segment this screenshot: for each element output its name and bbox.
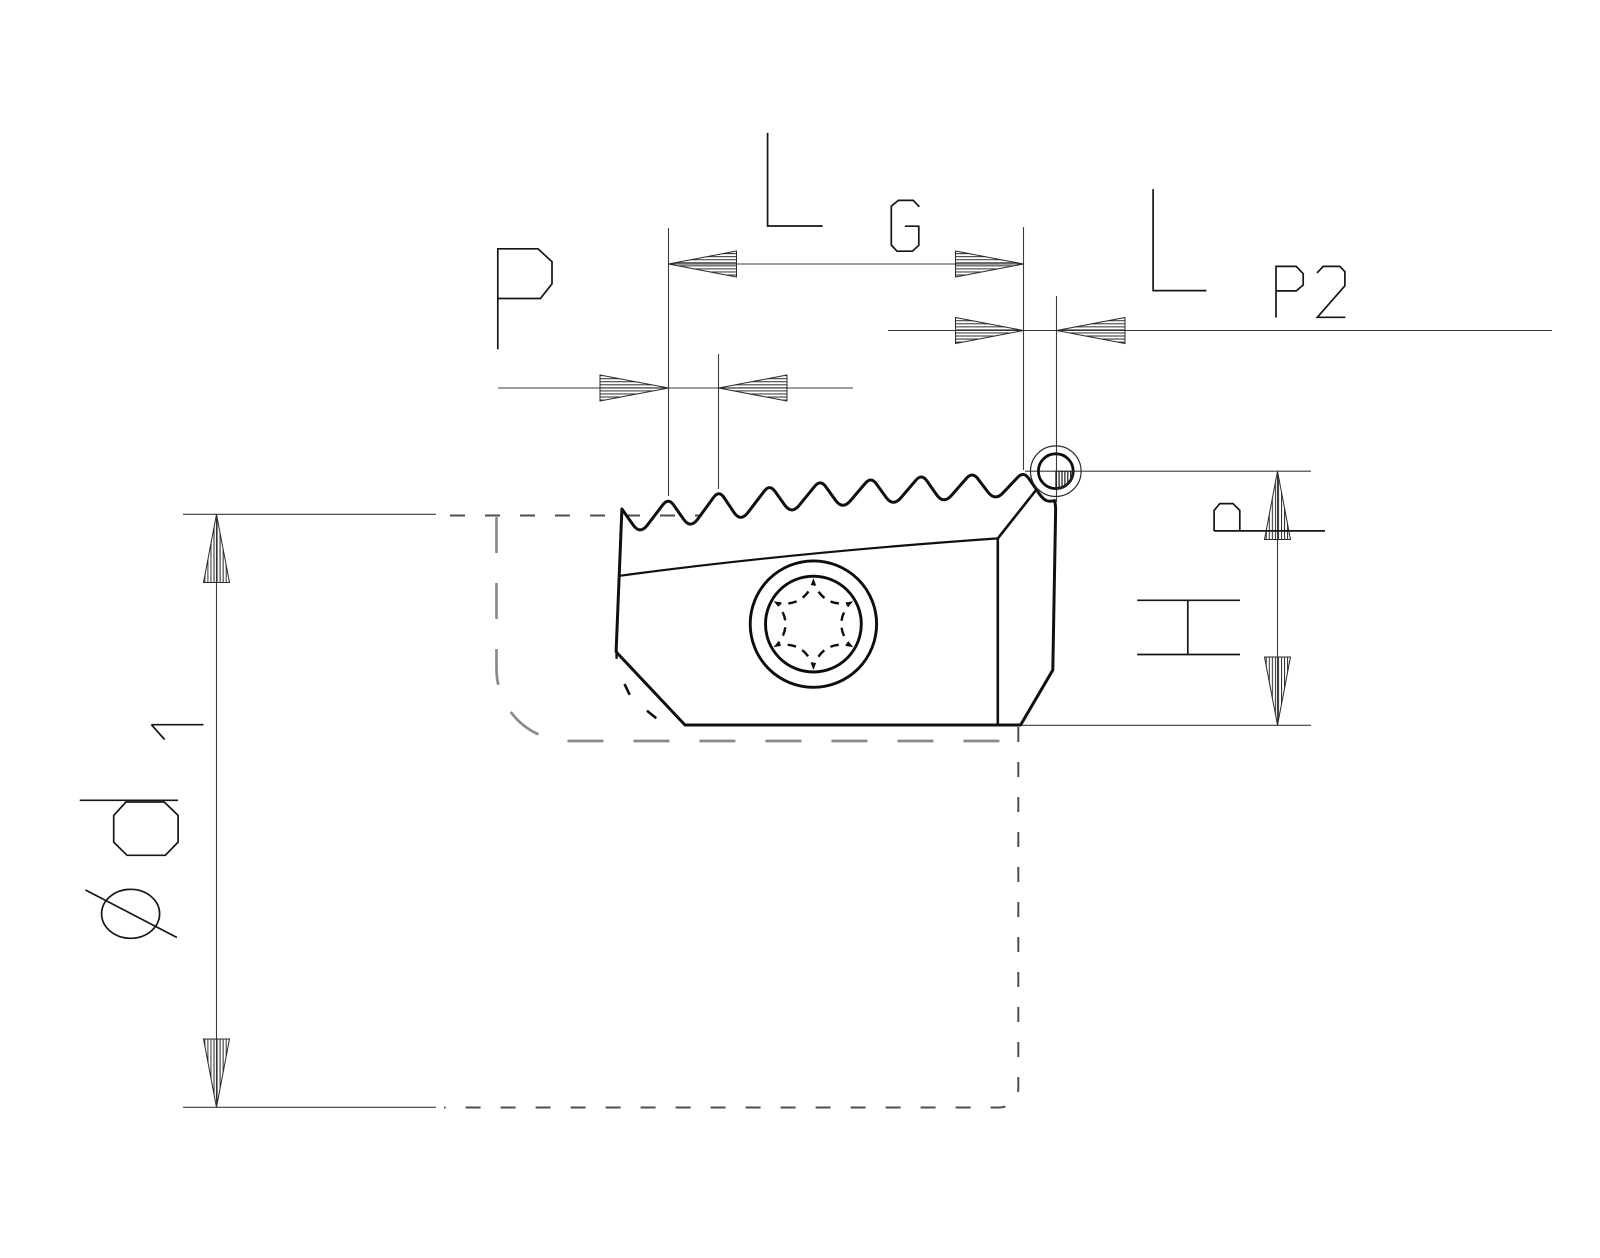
dimension P2 left arrow bbox=[956, 318, 1024, 344]
dimension od1 arrow up bbox=[204, 514, 230, 582]
dimension H arrow up bbox=[1265, 471, 1291, 539]
dimension H bottom extension line bbox=[1018, 724, 1311, 726]
dimension H top extension line bbox=[1025, 470, 1311, 472]
torx star dashed bbox=[777, 582, 851, 667]
dimension H line bbox=[1277, 471, 1279, 725]
tip radius outer circle bbox=[1031, 446, 1082, 497]
label subscript G bbox=[891, 200, 919, 251]
dimension P line bbox=[498, 387, 853, 389]
dimension H arrow down bbox=[1265, 657, 1291, 725]
screw hole inner circle bbox=[766, 576, 862, 672]
dimension od1 bottom extension line bbox=[183, 1106, 436, 1108]
ghost body outline long-dash (left vertical + corner + mid horizontal) bbox=[497, 517, 1019, 741]
ghost body outline short-dash top segment bbox=[450, 515, 702, 517]
insert left edge overshoot tick bbox=[615, 650, 617, 659]
label diameter symbol bbox=[86, 889, 177, 938]
dimension od1 top extension line bbox=[183, 513, 436, 515]
dimension P2 extension line bbox=[1056, 296, 1058, 502]
dimension P left arrow bbox=[600, 375, 669, 401]
dimension od1 line bbox=[216, 514, 218, 1107]
insert face top line bbox=[621, 538, 998, 575]
tip quarter hatch bbox=[1056, 471, 1073, 488]
label L (LG) bbox=[768, 133, 823, 226]
dimension P right arrow bbox=[719, 375, 788, 401]
dimension LG right arrow bbox=[956, 251, 1024, 277]
dimension LG line bbox=[669, 263, 1024, 265]
label P bbox=[498, 249, 552, 349]
tip radius inner circle bbox=[1038, 454, 1073, 489]
ghost body outline short-dash (right vertical + corner + bottom horizontal) bbox=[444, 727, 1018, 1108]
insert outline with serrated top bbox=[616, 474, 1056, 725]
label subscript 2 bbox=[1317, 266, 1345, 317]
insert inner vertical edge bbox=[996, 538, 999, 723]
dimension od1 arrow down bbox=[204, 1039, 230, 1107]
screw hole outer circle bbox=[750, 561, 876, 687]
dimension P2 line bbox=[888, 330, 1552, 332]
dimension P extension line 2 bbox=[718, 354, 720, 489]
label p rotated bbox=[1214, 504, 1325, 531]
dimension P2 right arrow bbox=[1057, 318, 1126, 344]
hidden chamfer dashes bbox=[625, 684, 657, 718]
dimension LG extension line 1 bbox=[668, 228, 670, 496]
label subscript P bbox=[1276, 266, 1303, 317]
dimension LG left arrow bbox=[669, 251, 737, 277]
dimension LG extension line 2 bbox=[1023, 227, 1025, 470]
label subscript 1 bbox=[151, 725, 203, 740]
insert right facet edge bbox=[998, 490, 1037, 539]
label L (LP2) bbox=[1153, 189, 1206, 291]
label d bbox=[80, 800, 178, 855]
label H rotated bbox=[1137, 600, 1240, 654]
